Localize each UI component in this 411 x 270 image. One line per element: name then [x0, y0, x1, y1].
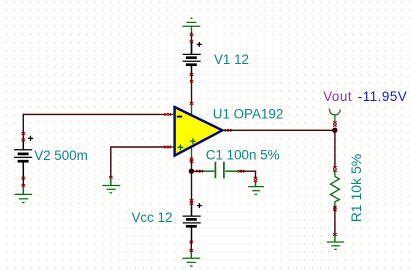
ground below V2: [15, 186, 33, 203]
pin X marks at op-amp V-: [190, 158, 194, 161]
op-amp plus sign (positive supply marker): [190, 138, 196, 144]
pin X marks above Vcc battery: [190, 199, 194, 202]
svg-text:-11.95V: -11.95V: [358, 89, 407, 104]
pin X marks below V1: [190, 73, 194, 76]
pin X marks at op-amp output: [225, 129, 229, 132]
wire: op-amp output to Vout node: [224, 129, 335, 131]
battery Vcc: [183, 204, 201, 242]
ground (top, flipped, above V1): [183, 18, 201, 32]
pin X marks below Vcc battery: [190, 241, 194, 244]
ground below R1: [327, 236, 344, 250]
svg-text:U1 OPA192: U1 OPA192: [213, 106, 283, 121]
op-amp U1 triangle: [175, 107, 223, 156]
wire: R1 to bottom right ground: [334, 206, 336, 235]
ground below C1: [248, 181, 264, 194]
op-amp noninverting input pin stub: [168, 146, 175, 148]
ground at noninverting input: [102, 179, 120, 193]
wire: corner down to V2 plus terminal: [22, 114, 24, 140]
pin X mark above bottom right ground: [333, 233, 337, 236]
plus sign of V2: [28, 136, 33, 141]
pin X marks above V2: [22, 132, 26, 135]
svg-text:R1 10k 5%: R1 10k 5%: [348, 154, 364, 222]
wire: Vout node down to R1: [334, 130, 336, 168]
wire: junction to C1: [191, 170, 203, 172]
wire: op-amp V- down to Vcc (vertical run): [191, 160, 193, 204]
wire: V2 to ground: [22, 178, 24, 187]
pin X marks at inverting input: [165, 113, 169, 116]
junction node at op-amp V- / C1: [189, 169, 194, 174]
svg-text:V1 12: V1 12: [214, 52, 249, 67]
battery V1: [183, 42, 201, 73]
wire: noninverting input to ground (horizontal run): [111, 146, 166, 148]
pin X marks at noninverting input: [165, 146, 169, 149]
op-amp inverting input pin stub: [168, 113, 175, 115]
wire: V1 to op-amp V+ pin: [191, 73, 193, 104]
pin X marks above R1: [333, 166, 337, 169]
svg-text:Vcc 12: Vcc 12: [132, 210, 173, 225]
junction node Vout: [332, 128, 337, 133]
wire: Vcc to bottom ground: [190, 242, 192, 252]
op-amp plus sign (noninverting input marker): [178, 144, 184, 150]
capacitor C1: [203, 162, 239, 178]
plus sign of Vcc: [197, 203, 202, 208]
pin X marks below Vout probe: [333, 121, 337, 124]
pin X marks above C1 ground: [254, 177, 258, 180]
pin X mark above noninverting ground: [109, 176, 113, 179]
wire: corner down to ground: [110, 146, 112, 177]
svg-text:Vout: Vout: [323, 89, 352, 104]
pin X marks below V2: [22, 177, 26, 180]
svg-text:C1 100n 5%: C1 100n 5%: [206, 147, 280, 162]
resistor R1: [331, 171, 340, 206]
wire: V2 to inverting input (horizontal run): [23, 113, 166, 115]
pin X mark at op-amp V+: [190, 102, 194, 105]
plus sign of V1: [197, 42, 202, 47]
wire: C1 right lead elbow to ground: [239, 171, 256, 178]
pin X marks at C1 right lead: [238, 170, 242, 173]
wire: top ground to V1 plus terminal: [191, 32, 193, 54]
voltage pin probe symbol Vout: [329, 109, 340, 122]
battery V2: [14, 140, 32, 178]
pin X marks below R1: [333, 206, 337, 209]
op-amp V- supply pin stub: [191, 146, 193, 160]
op-amp V+ supply pin stub: [191, 104, 193, 116]
svg-text:V2 500m: V2 500m: [34, 148, 88, 163]
pin X marks right of junction (C1 left pin wire): [196, 170, 200, 173]
ground below Vcc: [182, 252, 200, 267]
op-amp minus sign (inverting input marker): [177, 116, 182, 118]
pin X marks between top ground and V1: [190, 33, 194, 36]
